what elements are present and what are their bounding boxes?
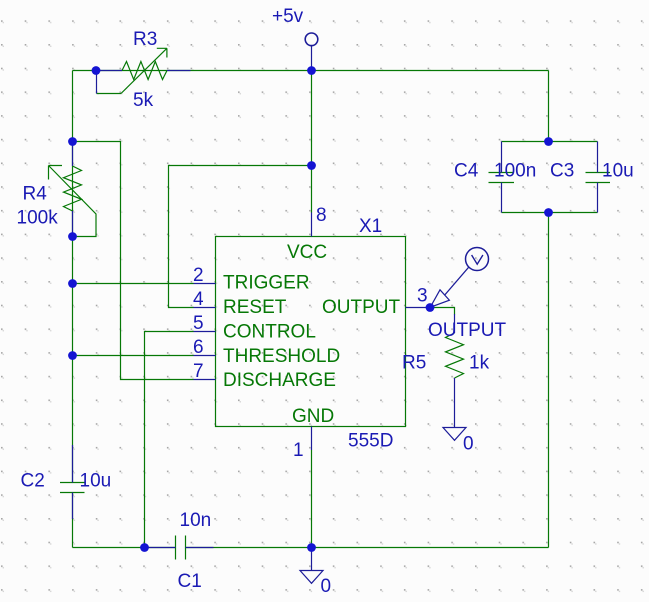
svg-text:+5v: +5v xyxy=(272,6,304,27)
svg-text:R5: R5 xyxy=(402,353,426,374)
wire bottom rail y=547.5 xyxy=(73,547,549,549)
pin number 3 xyxy=(417,286,428,307)
pin name RESET xyxy=(223,297,287,318)
svg-text:C4: C4 xyxy=(454,161,479,182)
power terminal +5v xyxy=(305,33,318,71)
svg-text:TRIGGER: TRIGGER xyxy=(223,273,310,294)
svg-text:100n: 100n xyxy=(494,161,536,182)
svg-text:8: 8 xyxy=(316,205,327,226)
wire output node to R5 xyxy=(430,308,455,315)
svg-text:7: 7 xyxy=(193,361,204,382)
pin number 5 xyxy=(193,313,204,334)
label 555D xyxy=(348,431,393,452)
pin lead 3 output xyxy=(406,307,431,309)
label +5v xyxy=(272,6,304,27)
wire capacitor bottom rail xyxy=(502,212,598,214)
svg-text:0: 0 xyxy=(321,576,332,597)
svg-text:R4: R4 xyxy=(23,184,48,205)
value 100n xyxy=(494,161,536,182)
pin lead 7 xyxy=(194,379,216,381)
wire left vertical bus x=72.5 xyxy=(72,71,74,548)
node dot cap bottom rail xyxy=(544,208,553,217)
pin name THRESHOLD xyxy=(223,346,340,367)
pin number 1 xyxy=(293,440,304,461)
svg-text:THRESHOLD: THRESHOLD xyxy=(223,346,340,367)
svg-text:3: 3 xyxy=(417,286,428,307)
wire capacitor top rail xyxy=(502,141,598,143)
label C1 xyxy=(178,571,202,592)
net label OUTPUT xyxy=(428,320,507,341)
pin name VCC xyxy=(287,242,327,263)
pin lead 8 xyxy=(311,213,313,237)
node dot C1 control branch xyxy=(140,543,149,552)
pin lead 4 xyxy=(194,307,216,309)
wire top rail from left corner to top-right corner xyxy=(73,70,549,72)
svg-text:OUTPUT: OUTPUT xyxy=(428,320,507,341)
wire R3 wiper return xyxy=(97,93,122,95)
svg-text:4: 4 xyxy=(193,289,204,310)
label X1 xyxy=(359,216,382,237)
value 10n xyxy=(180,510,212,531)
svg-text:R3: R3 xyxy=(133,29,157,50)
label 0 xyxy=(463,434,474,455)
value 10u xyxy=(80,471,112,492)
label 0 xyxy=(321,576,332,597)
pin name GND xyxy=(292,406,334,427)
capacitor C3 xyxy=(586,142,611,213)
node dot threshold branch xyxy=(68,351,77,360)
pin lead 5 xyxy=(194,331,216,333)
label R5 xyxy=(402,353,426,374)
node dot cap top rail xyxy=(544,137,553,146)
value 100k xyxy=(17,208,59,229)
pin number 2 xyxy=(193,265,204,286)
pin lead 2 xyxy=(194,283,216,285)
wire VCC branch x=311.5 to pin 8 xyxy=(311,71,313,213)
svg-text:10u: 10u xyxy=(80,471,112,492)
ground under R5 xyxy=(443,428,466,441)
wire TRIGGER branch y=283.5 xyxy=(73,283,194,285)
node dot R4 bottom xyxy=(68,232,77,241)
pin lead 1 xyxy=(311,427,313,451)
node dot top rail / R3 left xyxy=(92,66,101,75)
svg-text:GND: GND xyxy=(292,406,334,427)
value 5k xyxy=(133,90,154,111)
svg-text:0: 0 xyxy=(463,434,474,455)
svg-text:5k: 5k xyxy=(133,90,154,111)
svg-text:5: 5 xyxy=(193,313,204,334)
label R3 xyxy=(133,29,157,50)
svg-text:1k: 1k xyxy=(469,353,490,374)
svg-text:C3: C3 xyxy=(550,161,574,182)
capacitor C1 xyxy=(147,536,214,560)
wire pin 1 GND to bottom rail xyxy=(311,450,313,548)
svg-text:6: 6 xyxy=(193,337,204,358)
value 1k xyxy=(469,353,490,374)
node dot trigger branch xyxy=(68,279,77,288)
resistor R5 xyxy=(446,314,464,428)
pin name TRIGGER xyxy=(223,273,310,294)
svg-text:C1: C1 xyxy=(178,571,202,592)
wire THRESHOLD branch y=355.5 xyxy=(73,355,194,357)
op-amp X1 555D chip box xyxy=(216,237,406,427)
svg-text:C2: C2 xyxy=(21,471,45,492)
resistor R3 potentiometer body xyxy=(96,48,191,93)
svg-text:DISCHARGE: DISCHARGE xyxy=(223,370,336,391)
node dot left bus / discharge branch xyxy=(68,137,77,146)
svg-text:100k: 100k xyxy=(17,208,59,229)
node dot +5v rail xyxy=(307,66,316,75)
wire right vertical x=548.5 xyxy=(548,71,550,548)
pin number 6 xyxy=(193,337,204,358)
pin number 4 xyxy=(193,289,204,310)
svg-text:RESET: RESET xyxy=(223,297,287,318)
node dot VCC / reset branch xyxy=(307,161,316,170)
svg-text:2: 2 xyxy=(193,265,204,286)
pin name CONTROL xyxy=(223,322,316,343)
pin number 7 xyxy=(193,361,204,382)
wire RESET branch from node at (311.5,165.5) to pin 4 xyxy=(169,166,312,308)
capacitor C4 xyxy=(489,142,515,213)
svg-text:X1: X1 xyxy=(359,216,382,237)
svg-text:CONTROL: CONTROL xyxy=(223,322,316,343)
pin number 8 xyxy=(316,205,327,226)
label C4 xyxy=(454,161,479,182)
svg-text:1: 1 xyxy=(293,440,304,461)
svg-text:OUTPUT: OUTPUT xyxy=(322,297,401,318)
svg-text:555D: 555D xyxy=(348,431,393,452)
pin name DISCHARGE xyxy=(223,370,336,391)
label C3 xyxy=(550,161,574,182)
value 10u xyxy=(602,161,634,182)
ground bottom center xyxy=(300,548,323,584)
node dot output node 3 xyxy=(426,303,435,312)
node dot ground node xyxy=(307,543,316,552)
svg-text:10n: 10n xyxy=(180,510,212,531)
pin name OUTPUT xyxy=(322,297,401,318)
resistor R4 potentiometer body xyxy=(49,142,97,237)
capacitor C2 xyxy=(60,445,85,519)
svg-text:VCC: VCC xyxy=(287,242,327,263)
label C2 xyxy=(21,471,45,492)
wire CONTROL branch from C1 node up to pin 5 xyxy=(145,332,194,548)
label R4 xyxy=(23,184,48,205)
wire DISCHARGE branch from node (72.5,141.5) to pin 7 xyxy=(73,142,194,380)
pin lead 6 xyxy=(194,355,216,357)
svg-text:10u: 10u xyxy=(602,161,634,182)
voltage probe V xyxy=(430,248,488,308)
